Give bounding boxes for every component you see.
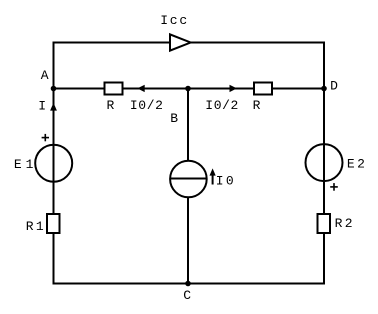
svg-text:I: I	[38, 99, 46, 114]
svg-text:R: R	[107, 98, 115, 113]
svg-text:I0/2: I0/2	[130, 98, 163, 113]
svg-text:A: A	[41, 68, 49, 83]
svg-text:B: B	[170, 111, 178, 126]
svg-text:D: D	[330, 79, 338, 94]
svg-text:I0/2: I0/2	[205, 98, 238, 113]
svg-text:Icc: Icc	[160, 13, 187, 28]
svg-text:C: C	[183, 288, 191, 303]
svg-text:R: R	[253, 98, 261, 113]
